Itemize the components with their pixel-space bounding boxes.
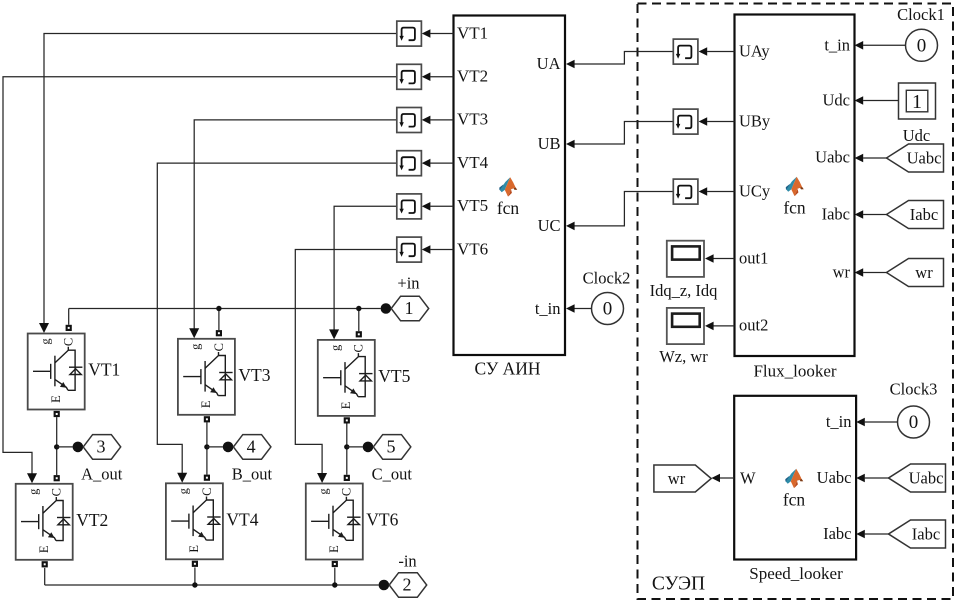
transistor VT3 (IGBT block) bbox=[178, 339, 235, 415]
svg-text:1: 1 bbox=[404, 298, 413, 318]
svg-text:Idq_z, Idq: Idq_z, Idq bbox=[650, 281, 718, 300]
svg-text:UA: UA bbox=[537, 54, 561, 73]
svg-text:VT1: VT1 bbox=[457, 23, 488, 42]
wire Uabc tag to Speed_looker bbox=[865, 477, 889, 479]
MATLAB fcn icon in Speed_looker bbox=[785, 469, 803, 488]
output port 3 connection circle bbox=[73, 442, 84, 453]
svg-text:VT6: VT6 bbox=[457, 239, 488, 258]
collector port square of VT3 bbox=[216, 330, 222, 336]
svg-text:VT3: VT3 bbox=[238, 365, 270, 385]
subsystem block Speed_looker bbox=[734, 396, 856, 560]
svg-text:Uabc: Uabc bbox=[907, 149, 942, 168]
junction on +in bus at VT3 collector bbox=[216, 306, 221, 311]
svg-text:C_out: C_out bbox=[372, 465, 413, 484]
svg-text:VT2: VT2 bbox=[76, 510, 108, 530]
svg-text:VT5: VT5 bbox=[378, 366, 410, 386]
memory block MUCy bbox=[673, 179, 698, 204]
svg-text:Iabc: Iabc bbox=[912, 525, 940, 544]
svg-text:Speed_looker: Speed_looker bbox=[749, 564, 843, 583]
svg-text:Iabc: Iabc bbox=[823, 524, 851, 543]
wire VT4 emitter to -in bus bbox=[194, 567, 196, 585]
svg-text:fcn: fcn bbox=[783, 198, 806, 218]
emitter port square of VT6 bbox=[332, 561, 338, 567]
svg-text:C: C bbox=[352, 344, 366, 352]
svg-text:out1: out1 bbox=[739, 248, 768, 267]
emitter port square of VT5 bbox=[344, 417, 350, 423]
svg-text:UAy: UAy bbox=[739, 41, 770, 60]
memory block MUBy bbox=[673, 109, 698, 134]
svg-text:g: g bbox=[26, 488, 40, 495]
svg-text:+in: +in bbox=[397, 274, 419, 293]
wire memory M1 to VT1 gate bbox=[44, 34, 396, 325]
wire VT1 emitter to VT2 collector bbox=[56, 417, 58, 475]
svg-text:B_out: B_out bbox=[232, 465, 273, 484]
svg-text:UBy: UBy bbox=[739, 111, 771, 130]
svg-text:Udc: Udc bbox=[823, 91, 851, 110]
svg-text:E: E bbox=[37, 545, 51, 553]
svg-text:VT4: VT4 bbox=[457, 153, 489, 172]
clock source Clock2 (constant 0) bbox=[592, 293, 624, 325]
svg-text:4: 4 bbox=[247, 436, 256, 456]
svg-text:Udc: Udc bbox=[903, 126, 931, 145]
emitter port square of VT3 bbox=[204, 416, 210, 422]
svg-text:0: 0 bbox=[909, 412, 919, 433]
wire to output port 4 bbox=[207, 446, 223, 448]
svg-text:t_in: t_in bbox=[826, 412, 852, 431]
svg-text:0: 0 bbox=[603, 299, 613, 320]
output port 3 (A_out) bbox=[83, 435, 121, 460]
wire Clock1 to Flux_looker t_in bbox=[863, 44, 905, 46]
svg-text:g: g bbox=[189, 343, 203, 350]
svg-text:C: C bbox=[212, 343, 226, 351]
svg-text:E: E bbox=[49, 395, 63, 403]
wire Flux_looker out1 to scope bbox=[714, 258, 735, 260]
svg-text:Uabc: Uabc bbox=[815, 148, 850, 167]
wire memory UBy to СУ АИН UB bbox=[574, 122, 673, 145]
svg-text:VT6: VT6 bbox=[366, 510, 398, 530]
svg-text:UCy: UCy bbox=[739, 181, 771, 200]
wire VT2 emitter to -in bus bbox=[44, 568, 46, 585]
wire memory UCy to СУ АИН UC bbox=[574, 192, 673, 226]
wire wr tag to Flux_looker bbox=[863, 272, 886, 274]
wire to output port 5 bbox=[347, 446, 363, 448]
junction at phase node C_out bbox=[344, 444, 349, 449]
svg-text:Clock1: Clock1 bbox=[897, 5, 945, 24]
svg-text:VT1: VT1 bbox=[88, 360, 120, 380]
svg-text:g: g bbox=[38, 338, 52, 345]
subsystem block СУ АИН bbox=[454, 16, 566, 356]
output port 4 connection circle bbox=[223, 442, 234, 453]
svg-text:VT3: VT3 bbox=[457, 110, 488, 129]
output port 4 (B_out) bbox=[233, 435, 271, 460]
svg-text:fcn: fcn bbox=[497, 198, 520, 218]
wire Iabc tag to Flux_looker bbox=[863, 214, 886, 216]
transistor VT2 (IGBT block) bbox=[16, 484, 73, 560]
from tag Iabc (to Speed_looker) bbox=[889, 520, 946, 548]
wire СУ АИН VT3 to memory M3 bbox=[430, 119, 453, 121]
svg-text:VT2: VT2 bbox=[457, 67, 488, 86]
dashed boundary of СУЭП subsystem bbox=[638, 4, 954, 600]
wire to output port 3 bbox=[57, 446, 73, 448]
memory block M6 bbox=[397, 237, 422, 262]
memory block M1 bbox=[397, 21, 422, 46]
wire Flux_looker UCy to memory bbox=[707, 191, 734, 193]
svg-text:wr: wr bbox=[915, 263, 933, 282]
svg-text:Uabc: Uabc bbox=[909, 469, 944, 488]
transistor VT4 (IGBT block) bbox=[166, 483, 223, 559]
wire СУ АИН VT2 to memory M2 bbox=[430, 76, 453, 78]
svg-text:W: W bbox=[740, 469, 756, 488]
wire Clock2 to СУ АИН t_in bbox=[575, 308, 592, 310]
wire Flux_looker out2 to scope bbox=[714, 325, 735, 327]
svg-text:E: E bbox=[327, 545, 341, 553]
wire СУ АИН VT4 to memory M4 bbox=[430, 162, 453, 164]
wire memory UAy to СУ АИН UA bbox=[574, 52, 673, 65]
svg-text:wr: wr bbox=[833, 263, 851, 282]
svg-text:Flux_looker: Flux_looker bbox=[753, 362, 836, 381]
goto tag wr (from Speed_looker W) bbox=[654, 465, 711, 492]
junction at phase node B_out bbox=[204, 444, 209, 449]
memory block M5 bbox=[397, 194, 422, 219]
memory block M2 bbox=[397, 64, 422, 89]
svg-text:C: C bbox=[50, 488, 64, 496]
collector port square of VT4 bbox=[204, 475, 210, 481]
input port 1 connection circle bbox=[381, 303, 392, 314]
svg-text:VT4: VT4 bbox=[226, 509, 258, 529]
from tag Uabc (to Speed_looker) bbox=[889, 464, 946, 492]
svg-text:Clock2: Clock2 bbox=[583, 269, 631, 288]
svg-text:UB: UB bbox=[538, 134, 561, 153]
wire СУ АИН VT1 to memory M1 bbox=[430, 33, 453, 35]
collector port square of VT2 bbox=[54, 475, 60, 481]
svg-text:E: E bbox=[187, 545, 201, 553]
from tag wr (to Flux_looker) bbox=[887, 259, 944, 287]
wire Flux_looker UBy to memory bbox=[707, 121, 734, 123]
svg-text:C: C bbox=[200, 488, 214, 496]
svg-text:СУЭП: СУЭП bbox=[652, 574, 705, 595]
wire Iabc tag to Speed_looker bbox=[865, 533, 889, 535]
wire +in bus to collectors of VT1 VT3 VT5 bbox=[69, 308, 381, 310]
MATLAB fcn icon in СУ АИН bbox=[499, 177, 517, 196]
svg-text:2: 2 bbox=[402, 575, 411, 595]
svg-text:g: g bbox=[316, 488, 330, 495]
svg-text:t_in: t_in bbox=[824, 35, 850, 54]
wire СУ АИН VT5 to memory M5 bbox=[430, 205, 453, 207]
emitter port square of VT4 bbox=[192, 561, 198, 567]
wire Udc constant to Flux_looker bbox=[863, 100, 898, 102]
svg-text:t_in: t_in bbox=[535, 299, 561, 318]
output port 5 connection circle bbox=[363, 442, 374, 453]
emitter port square of VT1 bbox=[54, 411, 60, 417]
svg-text:UC: UC bbox=[538, 216, 561, 235]
svg-text:out2: out2 bbox=[739, 316, 768, 335]
wire memory M2 to VT2 gate bbox=[3, 77, 396, 475]
collector port square of VT1 bbox=[66, 325, 72, 331]
wire memory M5 to VT5 gate bbox=[334, 206, 396, 331]
wire Clock3 to Speed_looker t_in bbox=[865, 421, 898, 423]
MATLAB fcn icon in Flux_looker bbox=[786, 177, 804, 196]
svg-text:Uabc: Uabc bbox=[817, 468, 852, 487]
clock source Clock3 (constant 0) bbox=[898, 406, 930, 438]
svg-text:Iabc: Iabc bbox=[822, 205, 850, 224]
constant block Udc (value 1) bbox=[899, 83, 936, 119]
scope Wz, wr bbox=[667, 308, 704, 344]
svg-text:Wz, wr: Wz, wr bbox=[659, 347, 708, 366]
wire VT5 emitter to VT6 collector bbox=[346, 424, 348, 475]
wire VT6 emitter to -in bus bbox=[334, 568, 336, 585]
wire memory M6 to VT6 gate bbox=[295, 250, 396, 475]
input port 1 (+in) bbox=[391, 296, 429, 321]
svg-text:C: C bbox=[340, 488, 354, 496]
subsystem block Flux_looker bbox=[735, 15, 855, 357]
svg-text:5: 5 bbox=[387, 436, 396, 456]
svg-text:1: 1 bbox=[912, 91, 922, 113]
svg-text:wr: wr bbox=[668, 469, 686, 488]
svg-text:g: g bbox=[328, 344, 342, 351]
memory block M4 bbox=[397, 151, 422, 176]
transistor VT6 (IGBT block) bbox=[306, 484, 363, 560]
transistor VT1 (IGBT block) bbox=[28, 334, 85, 410]
clock source Clock1 (constant 0) bbox=[906, 29, 938, 61]
output port 5 (C_out) bbox=[373, 435, 411, 460]
input port 2 (-in) bbox=[389, 573, 427, 598]
wire -in bus bbox=[45, 584, 379, 586]
memory block MUAy bbox=[673, 39, 698, 64]
wire Uabc tag to Flux_looker bbox=[863, 157, 886, 159]
from tag Uabc (to Flux_looker) bbox=[887, 144, 944, 172]
wire Speed_looker W to wr goto tag bbox=[720, 477, 735, 479]
memory block M3 bbox=[397, 108, 422, 133]
emitter port square of VT2 bbox=[42, 561, 48, 567]
svg-text:Clock3: Clock3 bbox=[890, 380, 938, 399]
collector port square of VT6 bbox=[344, 475, 350, 481]
svg-text:VT5: VT5 bbox=[457, 196, 488, 215]
transistor VT5 (IGBT block) bbox=[318, 340, 375, 416]
junction -in bus at VT4 emitter bbox=[192, 582, 197, 587]
wire СУ АИН VT6 to memory M6 bbox=[430, 249, 453, 251]
wire memory M4 to VT4 gate bbox=[157, 163, 396, 474]
junction on +in bus at VT5 collector bbox=[356, 306, 361, 311]
svg-text:E: E bbox=[339, 401, 353, 409]
svg-text:fcn: fcn bbox=[783, 490, 806, 510]
wire memory M3 to VT3 gate bbox=[194, 120, 396, 330]
svg-text:C: C bbox=[62, 338, 76, 346]
svg-text:g: g bbox=[177, 487, 191, 494]
svg-text:-in: -in bbox=[398, 552, 416, 571]
junction -in bus at VT6 emitter bbox=[332, 582, 337, 587]
scope Idq_z, Idq bbox=[667, 241, 704, 277]
svg-text:0: 0 bbox=[917, 35, 927, 56]
svg-text:E: E bbox=[199, 400, 213, 408]
input port 2 connection circle bbox=[379, 580, 390, 591]
collector port square of VT5 bbox=[356, 331, 362, 337]
wire VT3 emitter to VT4 collector bbox=[206, 422, 208, 474]
svg-text:Iabc: Iabc bbox=[910, 205, 938, 224]
svg-text:3: 3 bbox=[96, 436, 105, 456]
svg-text:СУ АИН: СУ АИН bbox=[474, 359, 540, 379]
from tag Iabc (to Flux_looker) bbox=[887, 201, 944, 229]
wire Flux_looker UAy to memory bbox=[707, 51, 734, 53]
svg-text:A_out: A_out bbox=[81, 465, 123, 484]
junction at phase node A_out bbox=[54, 444, 59, 449]
